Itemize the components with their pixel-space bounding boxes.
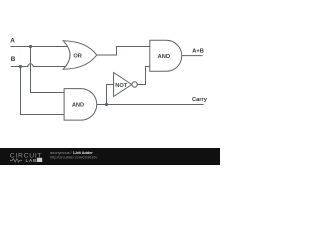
wire OR output to AND1 top input — [97, 47, 150, 56]
wire B input with hop — [11, 64, 68, 67]
and-gate U2 (sum) — [150, 40, 182, 71]
svg-text:AND: AND — [158, 54, 170, 60]
svg-text:A: A — [10, 38, 15, 45]
junction on B wire — [19, 65, 22, 68]
svg-text:anonymous / 1-bit Adder: anonymous / 1-bit Adder — [50, 151, 93, 155]
junction on AND2 output — [105, 103, 108, 106]
node A+B — [192, 48, 204, 54]
wire B to AND2 bottom input — [21, 67, 65, 115]
svg-text:http:∕∕circuitlab.com∕c∕u96z5v: http:∕∕circuitlab.com∕c∕u96z5v — [50, 155, 97, 159]
svg-text:A+B: A+B — [192, 48, 204, 54]
svg-text:LAB: LAB — [26, 158, 37, 164]
junction on A wire — [29, 45, 32, 48]
svg-text:AND: AND — [72, 103, 84, 109]
wire AND2 output to Carry — [97, 104, 204, 106]
and-gate U3 (carry) — [64, 89, 97, 121]
wire A input — [11, 46, 69, 48]
wire junction to NOT input — [107, 85, 114, 105]
wire NOT output to AND1 bottom input — [137, 67, 150, 85]
node Carry — [192, 97, 208, 103]
svg-text:NOT: NOT — [115, 83, 128, 89]
svg-text:B: B — [11, 56, 16, 63]
svg-text:OR: OR — [73, 53, 82, 59]
node A — [10, 38, 15, 45]
wire A to AND2 top input — [31, 47, 65, 93]
or-gate U1 — [63, 41, 97, 70]
node B — [11, 56, 16, 63]
wire AND1 output — [182, 55, 203, 57]
svg-text:Carry: Carry — [192, 97, 208, 103]
watermark bar — [0, 148, 220, 165]
not-gate U4 — [114, 73, 138, 97]
